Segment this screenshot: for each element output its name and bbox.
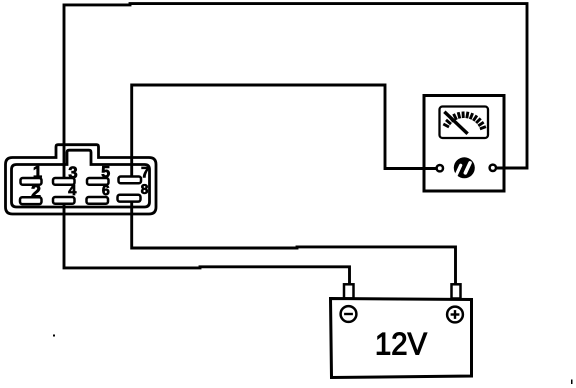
connector J1 inner outline [12,150,150,207]
connector J1 outer outline [6,145,157,214]
meter knob [454,157,475,178]
wire pin4 to battery minus [64,203,350,285]
meter left terminal [437,165,443,171]
pin number 3 [69,166,77,178]
pin 5 slot [87,178,109,185]
pin 3 slot [53,178,75,185]
pin number 7 [142,167,149,177]
meter scale ticks [443,112,486,129]
ink speck [53,335,55,337]
ink speck right edge [571,380,573,385]
pin 7 slot [119,177,142,184]
battery B1 body [331,299,472,378]
battery plus terminal symbol [447,307,463,323]
battery minus post [344,284,354,298]
meter right terminal [490,165,496,171]
pin number 8 [141,184,148,194]
pin number 6 [102,185,109,195]
battery plus post [452,284,461,298]
pin 2 slot [20,197,42,204]
pin number 2 [32,185,41,198]
battery label 12V [377,333,427,355]
meter display window [440,107,489,139]
pin number 4 [68,185,76,195]
wire pin7 to meter left terminal [132,85,437,177]
pin 8 slot [118,195,141,202]
pin number 5 [102,166,110,177]
meter M1 body [424,96,504,192]
meter needle [446,113,467,133]
pin 6 slot [87,197,109,204]
pin 1 slot [21,178,42,185]
battery minus terminal symbol [341,306,357,322]
pin 4 slot [53,197,75,204]
pin number 1 [34,166,42,177]
wire pin3 to meter right terminal [64,4,527,177]
wire pin8 to battery plus [132,202,456,285]
